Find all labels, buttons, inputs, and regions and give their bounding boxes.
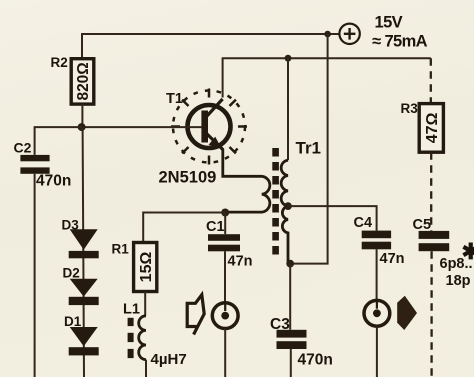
node emitter branch [221, 209, 229, 217]
svg-text:470n: 470n [36, 173, 71, 190]
wire +15V top rail [82, 34, 340, 59]
svg-text:18p: 18p [446, 273, 471, 289]
svg-text:L1: L1 [123, 302, 140, 318]
wire base [82, 126, 202, 128]
wire secondary top feed [287, 58, 289, 160]
wire C3 bottom lead [290, 349, 292, 377]
wire supply drop to C3 node [290, 34, 327, 264]
svg-text:15V: 15V [375, 14, 403, 32]
svg-text:Tr1: Tr1 [296, 139, 322, 158]
svg-text:470n: 470n [298, 352, 333, 369]
output arrow [397, 296, 417, 330]
wire emitter node to R1 [143, 213, 225, 243]
svg-text:D1: D1 [64, 314, 82, 329]
svg-text:C5: C5 [413, 217, 432, 233]
inductor L1 core [128, 318, 134, 358]
svg-text:2N5109: 2N5109 [159, 169, 217, 187]
node transformer tap [284, 202, 292, 210]
svg-text:15Ω: 15Ω [138, 252, 155, 283]
svg-text:C2: C2 [14, 140, 32, 156]
svg-text:820Ω: 820Ω [75, 62, 92, 100]
svg-text:C1: C1 [206, 219, 225, 235]
svg-text:R1: R1 [112, 242, 130, 257]
input arrow [187, 295, 204, 335]
svg-text:T1: T1 [166, 91, 183, 107]
svg-text:D3: D3 [62, 218, 80, 233]
capacitor C5 [419, 231, 450, 251]
wire tap to C4 [288, 206, 377, 231]
capacitor C3 [277, 330, 307, 349]
svg-text:≈ 75mA: ≈ 75mA [372, 33, 428, 51]
inductor L1 [139, 316, 146, 360]
node C3 top [286, 260, 294, 268]
node base junction [78, 123, 86, 131]
wire dashed R3 to C5 [430, 152, 432, 231]
wire dashed to R3 [430, 58, 432, 103]
wire dashed C5 bottom [430, 251, 432, 377]
capacitor C2 [20, 155, 49, 174]
transistor T1 dashed outline [171, 89, 247, 165]
wire C4 to J2 [376, 249, 378, 301]
wire R1 to L1 [144, 292, 146, 316]
capacitor C4 [362, 231, 391, 250]
capacitor C1 [208, 234, 240, 251]
svg-text:R2: R2 [51, 55, 68, 70]
power terminal +15V [339, 24, 359, 44]
svg-text:✱: ✱ [462, 239, 474, 264]
diode D3 [69, 229, 99, 258]
svg-text:C4: C4 [354, 215, 373, 231]
transformer Tr1 core [272, 148, 279, 255]
transformer Tr1 primary winding [223, 149, 270, 213]
resistor R2 [71, 59, 94, 104]
transformer Tr1 secondary winding [281, 160, 288, 263]
wire emitter node to C1 [224, 213, 226, 235]
svg-text:47n: 47n [380, 251, 405, 267]
svg-text:C3: C3 [270, 316, 290, 333]
wire collector rail [223, 58, 431, 97]
svg-text:D2: D2 [63, 266, 80, 281]
wire to C2 [35, 127, 82, 155]
svg-text:R3: R3 [401, 101, 419, 116]
connector J1 [212, 303, 238, 329]
wire J2 ground [376, 326, 378, 377]
node rail1 junction [324, 31, 331, 38]
wire C1 to jack [224, 251, 226, 302]
resistor R3 [419, 104, 443, 153]
connector J2 [364, 300, 390, 326]
diode D1 [69, 327, 99, 355]
wire C3 top lead [289, 264, 291, 330]
node rail2 junction [285, 55, 292, 62]
diode D2 [69, 279, 99, 305]
svg-text:47n: 47n [228, 254, 253, 270]
wire L1 bottom [145, 360, 147, 377]
wire R2 bottom [81, 104, 83, 127]
svg-text:4µH7: 4µH7 [151, 351, 187, 368]
svg-text:47Ω: 47Ω [424, 112, 441, 143]
wire J1 ground [224, 329, 226, 377]
transistor T1 [188, 99, 231, 150]
resistor R1 [134, 243, 157, 292]
wire diode chain [83, 127, 84, 377]
wire C2 bottom lead [34, 174, 36, 377]
